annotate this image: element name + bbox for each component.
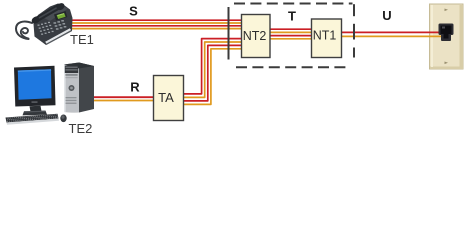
svg-text:R: R <box>130 80 140 95</box>
computer TE2 icon: tower <box>64 63 94 113</box>
computer TE2 icon: monitor <box>14 66 56 116</box>
svg-text:TE2: TE2 <box>69 121 93 136</box>
wire bundle U (NT1 to wall jack): red/orange <box>342 32 446 36</box>
computer TE2 icon: keyboard <box>6 114 60 125</box>
NT2 box <box>242 15 271 58</box>
svg-text:U: U <box>382 8 391 23</box>
svg-text:S: S <box>129 4 138 19</box>
wire bundle TA to NT2: four right-angle wires <box>184 39 242 105</box>
telephone TE1 icon <box>16 2 73 45</box>
svg-text:TE1: TE1 <box>70 32 94 47</box>
wall jack plate (U interface termination) <box>430 4 464 69</box>
wire bundle S (TE1 to NT2): red/orange/red/orange <box>70 20 242 28</box>
svg-text:T: T <box>288 8 296 23</box>
wire bundle R (TE2 tower to TA): red/orange <box>93 97 154 100</box>
dashed demarcation box <box>229 4 355 68</box>
TA box <box>154 76 184 121</box>
wire bundle T (NT2 to NT1): red/orange/red/orange <box>270 29 312 39</box>
NT1 box <box>312 19 342 58</box>
mouse next to keyboard <box>60 115 66 123</box>
svg-text:NT1: NT1 <box>313 29 337 43</box>
wall jack socket <box>439 24 454 42</box>
svg-text:TA: TA <box>158 90 174 105</box>
svg-text:NT2: NT2 <box>243 29 267 43</box>
